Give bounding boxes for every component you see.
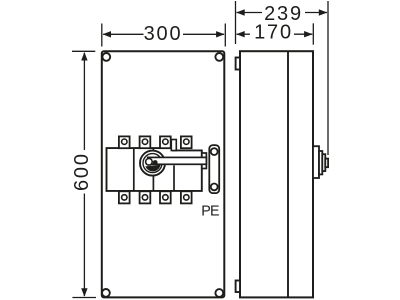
top terminal 4 xyxy=(181,136,192,148)
dimension 239 arrow left xyxy=(236,9,245,15)
lever bar end cap xyxy=(202,153,207,169)
top terminal 1 xyxy=(119,136,130,148)
dimension 170 extension line right xyxy=(312,23,314,44)
top terminal 2 xyxy=(140,136,151,148)
dimension 300 line left segment xyxy=(103,33,143,35)
side cover split line xyxy=(287,51,289,297)
side handle step 4 xyxy=(325,159,328,168)
pole divider 2 xyxy=(152,148,154,191)
front enclosure outline xyxy=(102,51,225,297)
bottom terminal 1 xyxy=(119,191,130,203)
dimension 300 line right segment xyxy=(183,33,224,35)
dimension 300 extension line left xyxy=(101,24,103,47)
dimension 600 line upper segment xyxy=(83,53,85,150)
side enclosure outline xyxy=(240,51,313,297)
handle escutcheon outer circle xyxy=(140,151,165,176)
svg-text:300: 300 xyxy=(144,23,183,45)
dimension 239 arrow right xyxy=(319,9,328,15)
wall bracket bottom xyxy=(236,281,240,293)
dimension 600 arrow up xyxy=(81,52,87,61)
svg-text:600: 600 xyxy=(71,152,93,191)
side handle step 2 xyxy=(319,151,322,174)
bottom terminal 4 xyxy=(181,191,192,203)
indicator tab above body xyxy=(171,140,176,151)
dimension 239 extension line right xyxy=(327,1,329,155)
svg-text:170: 170 xyxy=(254,22,293,44)
switch body (stepped top) xyxy=(107,148,202,191)
svg-text:PE: PE xyxy=(201,204,219,220)
dimension 239 line left segment xyxy=(237,12,263,14)
dimension 170 line left segment xyxy=(237,33,251,35)
dimension 600 extension tick top xyxy=(72,50,95,52)
lever pivot dot xyxy=(153,160,158,165)
wall bracket top xyxy=(236,58,240,70)
corner screw top-left xyxy=(102,53,110,61)
PE terminal strip xyxy=(209,145,219,193)
handle escutcheon inner circle xyxy=(143,154,162,173)
dimension 170 arrow left xyxy=(236,31,245,37)
side handle step 3 xyxy=(322,154,325,171)
top terminal 3 xyxy=(160,136,171,148)
dimension 239 line right segment xyxy=(305,12,327,14)
pole divider 1 xyxy=(133,148,135,191)
corner screw bottom-right xyxy=(215,289,223,297)
corner screw bottom-left xyxy=(102,289,110,297)
lever bar xyxy=(148,157,207,164)
dimension 300 arrow right xyxy=(216,31,225,37)
handle grip black segment xyxy=(145,165,160,172)
PE strip screw top xyxy=(211,148,218,155)
dimension 170 arrow right xyxy=(304,31,313,37)
dimension 600 extension tick bottom xyxy=(72,297,96,299)
dimension 170 line right segment xyxy=(294,33,312,35)
corner screw top-right xyxy=(215,53,223,61)
dimension 239 extension line left xyxy=(235,1,237,44)
dimension 300 arrow left xyxy=(103,31,112,37)
dimension 600 arrow down xyxy=(81,288,87,297)
bottom terminal 3 xyxy=(160,191,171,203)
PE strip screw bottom xyxy=(211,184,218,191)
bottom terminal 2 xyxy=(140,191,151,203)
dimension 300 extension line right xyxy=(224,24,226,47)
lever pivot circle xyxy=(146,159,153,166)
side handle step 1 xyxy=(313,146,319,178)
pole divider 3 xyxy=(173,165,175,191)
dimension 600 line lower segment xyxy=(83,194,85,297)
